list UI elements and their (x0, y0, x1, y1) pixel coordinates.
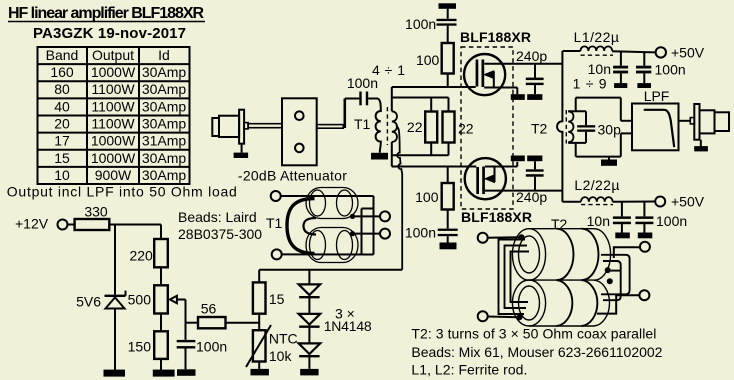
svg-text:900W: 900W (95, 167, 132, 183)
svg-text:L1, L2: Ferrite rod.: L1, L2: Ferrite rod. (411, 362, 527, 378)
svg-text:PA3GZK 19-nov-2017: PA3GZK 19-nov-2017 (33, 25, 186, 42)
svg-text:BLF188XR: BLF188XR (460, 29, 531, 45)
svg-text:T2: 3 turns of 3 × 50 Ohm coax: T2: 3 turns of 3 × 50 Ohm coax parallel (411, 326, 656, 342)
svg-text:+50V: +50V (671, 194, 705, 210)
svg-text:30Amp: 30Amp (142, 81, 187, 97)
svg-text:10: 10 (54, 167, 70, 183)
svg-text:Band: Band (46, 47, 79, 63)
svg-text:T2: T2 (551, 216, 568, 232)
svg-text:LPF: LPF (644, 88, 670, 104)
svg-text:1100W: 1100W (91, 116, 135, 132)
svg-text:30Amp: 30Amp (142, 167, 187, 183)
svg-text:330: 330 (84, 204, 108, 220)
svg-text:1100W: 1100W (91, 98, 135, 114)
svg-text:10k: 10k (269, 348, 293, 364)
svg-text:17: 17 (54, 133, 70, 149)
svg-text:160: 160 (50, 64, 74, 80)
svg-text:30p: 30p (598, 122, 622, 138)
svg-text:T1: T1 (354, 116, 371, 132)
svg-text:220: 220 (129, 248, 153, 264)
svg-text:Id: Id (158, 47, 170, 63)
svg-text:1100W: 1100W (91, 81, 135, 97)
svg-text:L2/22µ: L2/22µ (574, 177, 619, 193)
svg-text:31Amp: 31Amp (142, 133, 187, 149)
svg-text:100n: 100n (655, 62, 686, 78)
svg-text:30Amp: 30Amp (142, 64, 187, 80)
svg-text:1N4148: 1N4148 (324, 318, 372, 334)
svg-text:100: 100 (416, 52, 440, 68)
svg-text:1000W: 1000W (91, 150, 136, 166)
svg-text:Beads: Laird: Beads: Laird (178, 209, 257, 225)
svg-text:Beads: Mix 61, Mouser 623-2661: Beads: Mix 61, Mouser 623-2661102002 (411, 344, 662, 360)
svg-text:22: 22 (407, 119, 423, 135)
svg-text:15: 15 (54, 150, 70, 166)
svg-text:150: 150 (128, 339, 152, 355)
svg-text:T1: T1 (266, 215, 283, 231)
svg-text:HF linear amplifier BLF188XR: HF linear amplifier BLF188XR (8, 5, 204, 22)
svg-text:30Amp: 30Amp (142, 116, 187, 132)
svg-text:1000W: 1000W (91, 133, 136, 149)
svg-text:100n: 100n (196, 339, 227, 355)
svg-text:100: 100 (415, 189, 439, 205)
svg-text:1000W: 1000W (91, 64, 136, 80)
svg-text:+50V: +50V (671, 45, 705, 61)
svg-text:Output incl LPF into 50 Ohm lo: Output incl LPF into 50 Ohm load (7, 184, 237, 200)
svg-text:30Amp: 30Amp (142, 98, 187, 114)
svg-text:15: 15 (269, 291, 285, 307)
svg-text:28B0375-300: 28B0375-300 (178, 226, 262, 242)
svg-text:100n: 100n (405, 225, 436, 241)
svg-text:10n: 10n (587, 213, 610, 229)
svg-text:1 ÷ 9: 1 ÷ 9 (573, 76, 607, 92)
svg-text:4 ÷ 1: 4 ÷ 1 (372, 62, 405, 78)
svg-text:500: 500 (128, 292, 152, 308)
svg-text:Output: Output (92, 47, 134, 63)
svg-text:240p: 240p (516, 48, 547, 64)
svg-text:240p: 240p (516, 189, 547, 205)
svg-text:100n: 100n (656, 213, 687, 229)
svg-text:56: 56 (201, 301, 217, 317)
svg-text:NTC: NTC (269, 331, 298, 347)
svg-text:20: 20 (54, 116, 70, 132)
svg-text:BLF188XR: BLF188XR (461, 209, 532, 225)
svg-text:L1/22µ: L1/22µ (574, 29, 619, 45)
svg-text:T2: T2 (531, 121, 548, 137)
svg-text:80: 80 (54, 81, 70, 97)
svg-text:40: 40 (54, 98, 70, 114)
svg-text:+12V: +12V (15, 216, 49, 232)
svg-text:10n: 10n (588, 61, 611, 77)
svg-text:30Amp: 30Amp (142, 150, 187, 166)
svg-text:100n: 100n (405, 16, 436, 32)
svg-text:5V6: 5V6 (76, 294, 101, 310)
svg-text:-20dB Attenuator: -20dB Attenuator (238, 168, 347, 184)
